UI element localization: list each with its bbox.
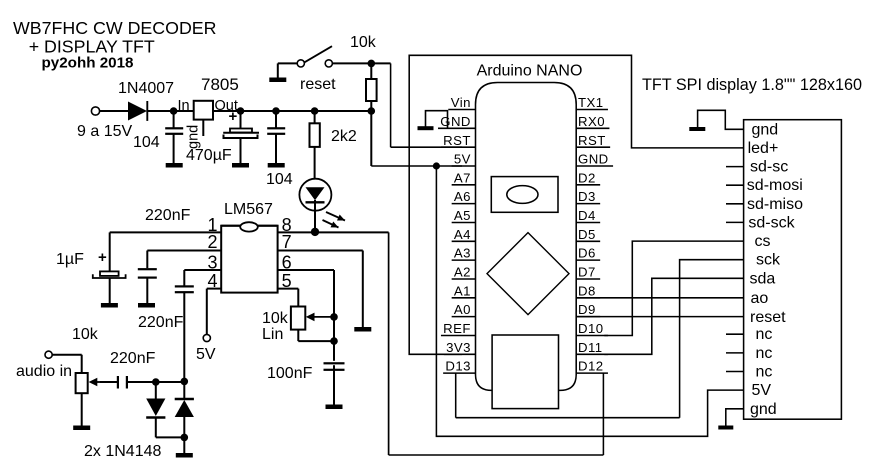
- svg-text:D4: D4: [578, 208, 596, 223]
- svg-text:D3: D3: [578, 189, 596, 204]
- svg-text:+: +: [98, 249, 107, 266]
- svg-text:led+: led+: [748, 140, 779, 157]
- svg-text:3V3: 3V3: [446, 340, 471, 355]
- svg-text:D6: D6: [578, 246, 596, 261]
- svg-text:9 a 15V: 9 a 15V: [77, 123, 132, 140]
- svg-text:cs: cs: [755, 233, 771, 250]
- svg-text:A1: A1: [454, 283, 471, 298]
- svg-text:sck: sck: [756, 252, 781, 269]
- svg-text:D12: D12: [578, 359, 604, 374]
- svg-text:RX0: RX0: [578, 114, 605, 129]
- svg-text:D5: D5: [578, 227, 596, 242]
- svg-text:A2: A2: [454, 265, 471, 280]
- svg-text:ao: ao: [751, 290, 769, 307]
- svg-text:220nF: 220nF: [145, 207, 191, 224]
- svg-text:104: 104: [266, 171, 293, 188]
- svg-text:reset: reset: [750, 309, 786, 326]
- svg-text:A3: A3: [454, 246, 471, 261]
- svg-text:sd-miso: sd-miso: [747, 196, 803, 213]
- svg-text:GND: GND: [440, 114, 471, 129]
- svg-text:220nF: 220nF: [138, 314, 184, 331]
- svg-text:D2: D2: [578, 170, 596, 185]
- svg-text:RST: RST: [443, 133, 471, 148]
- svg-text:gnd: gnd: [752, 121, 779, 138]
- svg-text:4: 4: [207, 271, 217, 291]
- svg-text:1µF: 1µF: [56, 251, 84, 268]
- svg-text:TFT SPI display 1.8"" 128x160: TFT SPI display 1.8"" 128x160: [642, 76, 862, 94]
- svg-text:1N4007: 1N4007: [118, 80, 174, 97]
- svg-text:gnd: gnd: [186, 125, 202, 149]
- svg-text:D10: D10: [578, 321, 604, 336]
- svg-text:reset: reset: [300, 76, 336, 93]
- svg-text:10k: 10k: [350, 34, 377, 51]
- svg-text:A5: A5: [454, 208, 471, 223]
- svg-text:A4: A4: [454, 227, 471, 242]
- svg-text:LM567: LM567: [224, 201, 273, 218]
- svg-text:2x 1N4148: 2x 1N4148: [84, 443, 161, 460]
- svg-text:GND: GND: [578, 152, 609, 167]
- svg-text:nc: nc: [756, 364, 773, 381]
- svg-text:5V: 5V: [752, 382, 772, 399]
- svg-text:Arduino NANO: Arduino NANO: [477, 63, 583, 80]
- svg-text:A0: A0: [454, 302, 471, 317]
- svg-text:In: In: [178, 98, 190, 114]
- svg-text:nc: nc: [756, 345, 773, 362]
- svg-text:A7: A7: [454, 170, 471, 185]
- svg-text:D7: D7: [578, 265, 596, 280]
- svg-text:+ DISPLAY TFT: + DISPLAY TFT: [29, 36, 155, 56]
- svg-text:7: 7: [282, 232, 292, 252]
- svg-text:A6: A6: [454, 189, 471, 204]
- svg-text:REF: REF: [443, 321, 471, 336]
- svg-text:2: 2: [207, 232, 217, 252]
- svg-text:D8: D8: [578, 283, 596, 298]
- svg-text:10k: 10k: [262, 310, 289, 327]
- svg-text:100nF: 100nF: [267, 365, 313, 382]
- svg-text:audio in: audio in: [16, 363, 72, 380]
- svg-text:D11: D11: [578, 340, 603, 355]
- svg-text:nc: nc: [756, 326, 773, 343]
- svg-text:104: 104: [133, 134, 160, 151]
- svg-text:sd-mosi: sd-mosi: [747, 177, 803, 194]
- svg-text:Vin: Vin: [451, 95, 471, 110]
- svg-text:gnd: gnd: [750, 401, 777, 418]
- svg-text:10k: 10k: [72, 326, 99, 343]
- svg-text:D13: D13: [445, 359, 471, 374]
- svg-text:3: 3: [207, 252, 217, 272]
- svg-text:TX1: TX1: [578, 95, 604, 110]
- svg-text:Lin: Lin: [262, 326, 283, 343]
- svg-text:2k2: 2k2: [331, 128, 357, 145]
- svg-text:220nF: 220nF: [110, 350, 156, 367]
- svg-text:sd-sck: sd-sck: [748, 214, 795, 231]
- svg-text:+: +: [229, 108, 238, 125]
- svg-text:470µF: 470µF: [186, 147, 232, 164]
- svg-text:5V: 5V: [196, 346, 216, 363]
- svg-text:WB7FHC CW DECODER: WB7FHC CW DECODER: [13, 18, 217, 38]
- svg-text:5V: 5V: [454, 152, 471, 167]
- svg-text:sda: sda: [750, 270, 776, 287]
- svg-text:py2ohh 2018: py2ohh 2018: [42, 55, 134, 72]
- svg-text:sd-sc: sd-sc: [750, 159, 788, 176]
- svg-text:7805: 7805: [201, 75, 239, 94]
- svg-text:D9: D9: [578, 302, 596, 317]
- svg-text:RST: RST: [578, 133, 606, 148]
